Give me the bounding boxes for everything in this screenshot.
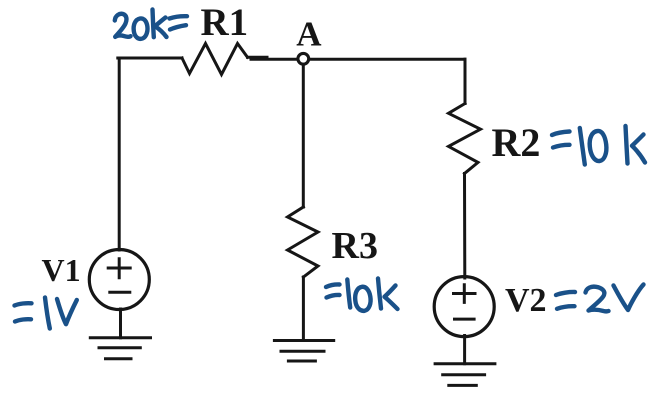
wire top-left horizontal (V1 to R1) — [118, 57, 182, 60]
wire R1 to node A — [248, 57, 298, 59]
wire node A to right corner — [309, 58, 465, 61]
handwritten =1V (V1 value) — [15, 298, 77, 329]
wire R2 to V2 — [463, 174, 466, 279]
wire right vertical top (corner to R2) — [464, 59, 467, 103]
label V2 — [505, 282, 547, 319]
voltage source V1 — [89, 250, 149, 310]
wire left vertical (top wire down to V1) — [118, 58, 121, 250]
svg-text:V2: V2 — [505, 282, 547, 319]
svg-text:A: A — [296, 15, 322, 54]
wire V1 to ground — [119, 309, 122, 338]
ground (R3) — [274, 341, 333, 362]
label R3 — [332, 225, 378, 267]
resistor R3 — [288, 207, 319, 277]
wire R3 to ground — [302, 277, 305, 341]
wire V2 to ground — [463, 336, 466, 364]
svg-text:V1: V1 — [42, 252, 81, 288]
label V1 — [42, 252, 81, 288]
handwritten 20k= (R1 value) — [115, 10, 187, 39]
handwritten =2V (V2 value) — [556, 285, 644, 312]
label R2 — [492, 120, 541, 165]
handwritten =10k (R3 value) — [326, 279, 398, 311]
svg-text:R2: R2 — [492, 120, 541, 165]
ground (V1) — [90, 338, 150, 359]
ground (V2) — [435, 364, 495, 386]
resistor R1 — [182, 44, 248, 75]
node A — [298, 53, 309, 64]
resistor R2 — [449, 104, 481, 174]
svg-text:R3: R3 — [332, 225, 378, 267]
label A — [296, 15, 322, 54]
handwritten =10k (R2 value) — [552, 126, 645, 165]
wire node A down to R3 — [302, 65, 305, 208]
label R1 — [201, 1, 249, 44]
svg-text:R1: R1 — [201, 1, 249, 44]
voltage source V2 — [434, 277, 494, 337]
